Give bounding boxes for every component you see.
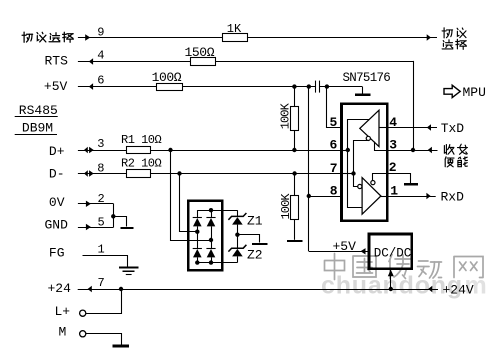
arrow left [88,286,92,293]
wire +24 bus [78,289,438,291]
wire A line [151,150,342,152]
wire DC/DC in from +24 [390,269,392,289]
wire driver out A [348,120,370,208]
svg-text:MPU: MPU [463,85,486,100]
svg-text:GND: GND [45,217,69,232]
arrow left [89,58,93,65]
wire [215,61,413,63]
node dots on +5V rail [292,84,296,88]
resistor 100Ω [157,84,183,91]
svg-text:RTS: RTS [45,54,69,69]
wire cap to pin5 [327,87,342,128]
svg-text:7: 7 [330,161,338,176]
svg-text:100K: 100K [279,193,293,220]
wire +5V out [309,251,369,253]
wire [237,256,239,262]
svg-text:RxD: RxD [441,189,465,204]
capacitor C1 plates [315,81,317,93]
wire pin8 to +5V [309,196,342,198]
svg-text:1K: 1K [227,22,242,36]
bidir arrows [84,147,88,153]
wire TxD [387,127,437,129]
terminal L+ [80,310,86,316]
resistor 1K [223,34,248,42]
svg-text:SN75176: SN75176 [343,71,391,85]
diode (bridge, top col x=211.0) [211,210,213,217]
arrow left [89,83,93,90]
svg-text:R1 10Ω: R1 10Ω [121,133,162,147]
label 收发 [444,145,454,155]
bidir arrows [84,170,88,176]
resistor R2 10Ω [127,170,151,178]
arrow right (pin side) [85,34,90,41]
wire [78,150,127,152]
MPU arrow [444,85,460,97]
svg-text:100Ω: 100Ω [152,70,182,85]
svg-text:8: 8 [330,184,338,199]
wire D- branch [180,174,198,232]
svg-text:1: 1 [98,242,105,256]
svg-text:4: 4 [97,49,104,63]
wire enable [387,150,437,152]
diode (bridge, bottom col x=197.3) [193,248,202,250]
ground (pin2) [404,183,418,185]
ground (cap) [362,87,364,94]
wire FG [83,256,128,267]
wire to ground [114,217,127,227]
wire +5V vertical [308,87,310,252]
wire [320,86,363,88]
wire [78,61,190,63]
wire pin4 to driver [379,127,387,129]
wire [247,37,437,39]
ground (0V/GND) [121,227,134,229]
diode (bridge, top col x=197.3) [197,210,199,217]
arrow to MPU side [427,34,431,41]
svg-text:5: 5 [98,215,105,229]
svg-text:+24: +24 [48,281,72,296]
svg-text:2: 2 [98,192,105,206]
resistor 150Ω [191,58,216,66]
wire D+ branch [171,151,212,241]
wire 0V [78,203,113,205]
svg-text:D-: D- [49,167,65,182]
svg-text:R2 10Ω: R2 10Ω [121,157,162,171]
ground (100K) [287,240,303,242]
label 使能 [445,157,454,167]
wire RxD [387,196,435,198]
wire [78,86,156,88]
node dots [177,171,181,175]
svg-text:5: 5 [330,115,338,130]
svg-text:3: 3 [97,137,104,151]
wire pin7 inside [342,173,354,175]
node dots [168,148,172,152]
svg-text:0V: 0V [49,195,65,210]
svg-text:9: 9 [97,25,104,39]
wire top rail to Z1 [237,210,239,216]
bottom rail [197,262,237,264]
resistor R1 10Ω [127,147,151,154]
diode (bridge, bottom col x=211.0) [206,248,215,250]
svg-text:DB9M: DB9M [22,120,53,135]
zener Z1 [228,213,246,220]
wire pin3 DE [375,142,388,151]
wire to enable [413,61,415,150]
svg-text:150Ω: 150Ω [185,45,215,60]
svg-text:7: 7 [98,276,105,290]
svg-text:DC/DC: DC/DC [374,246,412,260]
resistor 100K pull-up [294,87,296,106]
svg-text:Z2: Z2 [247,248,263,263]
wire GND [78,227,113,229]
svg-text:Z1: Z1 [247,214,263,229]
svg-text:6: 6 [97,73,104,87]
op-amp/transceiver U1 SN75176 box [342,104,388,221]
wire [78,173,127,175]
wire B line [151,173,342,175]
wire pin2 RE [373,174,388,181]
receiver triangle (bottom, points right) [362,178,381,215]
bridge node dots [209,208,213,212]
wire +5V rail [182,86,315,88]
node 协议/选择 (right label) [442,28,453,38]
earth ground (FG) [119,267,138,269]
resistor 100K pull-down [294,174,296,196]
ground (zener mid) [238,235,260,243]
svg-text:M: M [59,325,67,340]
top rail [197,210,237,212]
wire pin6 inside [342,150,348,152]
svg-text:FG: FG [49,245,65,260]
DC/DC converter box [369,234,412,269]
diode bridge box [188,201,222,270]
svg-text:TxD: TxD [441,121,465,136]
wire M [86,334,122,345]
svg-text:L+: L+ [55,304,71,319]
terminal M [80,331,86,337]
svg-text:+24V: +24V [443,283,474,298]
wire [78,37,223,39]
ground (M) [113,345,129,348]
svg-text:100K: 100K [279,102,293,129]
svg-text:RS485: RS485 [19,103,58,118]
receiver input bubble [358,184,362,188]
svg-text:6: 6 [330,138,338,153]
watermark 中国传动网 [325,254,345,280]
svg-text:+5V: +5V [44,79,68,94]
driver triangle (top, points left) [360,110,379,146]
svg-text:2: 2 [389,160,397,175]
arrow +24V [428,286,432,293]
wire [237,225,239,249]
wire receiver out pin1 [381,196,387,198]
wire L+ [86,290,122,314]
svg-text:D+: D+ [49,144,65,159]
zener Z2 [228,245,246,252]
wire pin2 to ground [388,174,411,184]
label 协议选择 (protocol select) [22,32,32,42]
svg-text:8: 8 [97,161,104,175]
wire driver out B (bubble) [354,141,369,187]
